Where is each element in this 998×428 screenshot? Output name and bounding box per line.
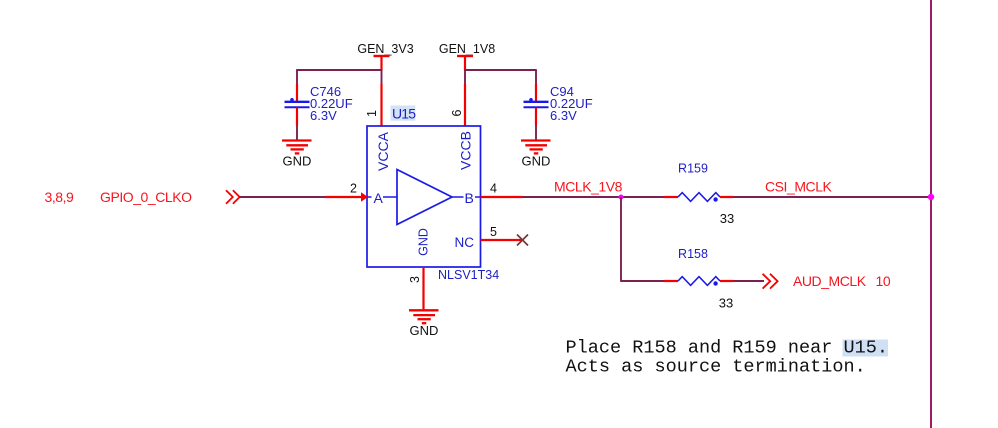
svg-text:NC: NC xyxy=(455,235,475,250)
svg-text:A: A xyxy=(374,190,384,206)
svg-text:GEN_3V3: GEN_3V3 xyxy=(357,42,413,56)
svg-text:Place R158 and R159 near U15.: Place R158 and R159 near U15. xyxy=(566,338,889,359)
svg-text:MCLK_1V8: MCLK_1V8 xyxy=(554,179,623,195)
svg-text:3: 3 xyxy=(408,276,422,283)
svg-text:2: 2 xyxy=(350,181,357,195)
svg-text:VCCA: VCCA xyxy=(375,131,391,171)
svg-text:AUD_MCLK: AUD_MCLK xyxy=(793,273,867,289)
svg-text:GPIO_0_CLKO: GPIO_0_CLKO xyxy=(100,189,192,205)
svg-text:4: 4 xyxy=(490,181,497,195)
svg-text:R159: R159 xyxy=(678,162,708,176)
svg-text:GND: GND xyxy=(416,228,430,256)
svg-text:GND: GND xyxy=(410,323,439,338)
svg-text:33: 33 xyxy=(719,296,733,311)
svg-text:10: 10 xyxy=(876,273,891,289)
svg-text:VCCB: VCCB xyxy=(458,131,474,170)
svg-text:GEN_1V8: GEN_1V8 xyxy=(439,42,495,56)
svg-text:Acts as source termination.: Acts as source termination. xyxy=(566,357,866,378)
svg-text:U15: U15 xyxy=(392,106,416,122)
svg-text:6.3V: 6.3V xyxy=(550,108,577,123)
svg-text:1: 1 xyxy=(365,110,379,117)
svg-text:6.3V: 6.3V xyxy=(310,108,337,123)
svg-text:R158: R158 xyxy=(678,247,708,261)
svg-text:3,8,9: 3,8,9 xyxy=(45,189,75,205)
svg-text:CSI_MCLK: CSI_MCLK xyxy=(765,179,833,195)
svg-text:33: 33 xyxy=(720,211,734,226)
svg-text:B: B xyxy=(465,190,474,206)
svg-text:5: 5 xyxy=(490,225,497,239)
svg-text:NLSV1T34: NLSV1T34 xyxy=(438,268,499,282)
svg-text:GND: GND xyxy=(522,154,551,169)
svg-text:GND: GND xyxy=(283,154,312,169)
svg-text:6: 6 xyxy=(450,109,464,116)
